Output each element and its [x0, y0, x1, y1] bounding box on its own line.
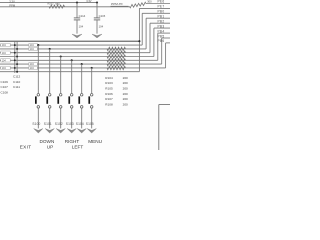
wire button 3 up — [60, 57, 62, 94]
wire stub PB1 — [146, 17, 170, 19]
label C114 — [79, 14, 86, 18]
label UP — [47, 144, 54, 149]
svg-text:3.3V: 3.3V — [86, 0, 92, 3]
wire left vertical A — [14, 41, 16, 73]
wire bus row 0 — [0, 40, 139, 42]
svg-text:PB1: PB1 — [158, 15, 165, 19]
svg-text:R103: R103 — [105, 81, 113, 85]
svg-text:200: 200 — [123, 76, 128, 80]
svg-text:PB4: PB4 — [158, 29, 165, 33]
svg-text:PB6: PB6 — [158, 39, 165, 43]
wire row 3 — [0, 52, 150, 54]
svg-text:PE7: PE7 — [158, 5, 165, 9]
junction dot button 3 — [60, 55, 62, 57]
svg-text:PPM: PPM — [9, 3, 16, 7]
svg-text:S103: S103 — [66, 122, 74, 126]
wire stub PB3 — [154, 27, 170, 29]
svg-text:PE6: PE6 — [158, 0, 165, 4]
label R102 — [48, 3, 55, 6]
wire riser PB0 — [141, 13, 143, 45]
capacitor C114 — [74, 3, 80, 34]
net flag left — [1, 66, 10, 70]
value 104 C115 — [99, 24, 104, 28]
svg-text:S100: S100 — [32, 122, 40, 126]
label S101 — [44, 122, 52, 126]
wire row 2 — [0, 48, 146, 50]
label DOWN — [40, 139, 55, 144]
capacitor C115 — [94, 3, 100, 34]
svg-text:C112: C112 — [13, 75, 20, 79]
label C112 — [13, 75, 20, 79]
net label PB1 — [158, 15, 165, 19]
wire button 4 down — [71, 108, 73, 128]
svg-text:104: 104 — [2, 67, 7, 70]
value 200 R106 — [123, 92, 128, 96]
svg-text:PB3: PB3 — [158, 24, 165, 28]
resistor row2 — [107, 47, 126, 50]
net label PB0 — [158, 10, 165, 14]
svg-text:200: 200 — [123, 81, 128, 85]
svg-text:C110: C110 — [13, 80, 20, 84]
label S102 — [55, 122, 63, 126]
value 200 R105 — [123, 87, 128, 91]
svg-text:MENU: MENU — [88, 139, 102, 144]
svg-text:C107: C107 — [1, 85, 9, 89]
value 200 R104 — [123, 76, 128, 80]
switch S101 contacts — [48, 94, 51, 109]
ground button 1 — [34, 129, 43, 133]
wire 3.3V top rail — [0, 2, 97, 4]
wire row 7 — [0, 67, 166, 69]
junction dot vB — [16, 63, 18, 65]
svg-text:R106: R106 — [105, 92, 113, 96]
wire stub PB2 — [150, 22, 170, 24]
svg-text:S102: S102 — [55, 122, 63, 126]
junction dot vA — [14, 44, 16, 46]
net flag left — [1, 51, 10, 55]
label EXIT — [20, 144, 32, 149]
label S105 — [86, 122, 94, 126]
label R104 — [105, 76, 113, 80]
wire button 3 down — [60, 108, 62, 128]
value 200 R108 — [123, 103, 128, 107]
wire row 5 — [0, 59, 158, 61]
svg-text:S105: S105 — [86, 122, 94, 126]
block outline corner — [159, 105, 170, 151]
wire stub PB5 — [162, 37, 170, 39]
label R103 — [105, 81, 113, 85]
wire riser PB5 — [161, 38, 163, 64]
switch S104 actuator bar — [78, 96, 80, 103]
value 200 R107 — [123, 97, 128, 101]
wire row 6 — [0, 63, 162, 65]
wire stub PB0 — [142, 12, 170, 14]
net label PB5 — [158, 34, 165, 38]
junction dot vB — [16, 48, 18, 50]
svg-text:560: 560 — [56, 3, 61, 6]
svg-text:PB2: PB2 — [158, 20, 165, 24]
label C109 — [1, 80, 9, 84]
value 560 — [56, 3, 61, 6]
value 200 R103 — [123, 81, 128, 85]
wire stub PB6 — [166, 42, 170, 44]
svg-text:R105: R105 — [105, 87, 113, 91]
junction dot vA — [14, 67, 16, 69]
junction dot button 6 — [91, 67, 93, 69]
junction dot vB — [16, 56, 18, 58]
svg-text:PB5: PB5 — [158, 34, 165, 38]
svg-text:200: 200 — [123, 87, 128, 91]
svg-text:104: 104 — [2, 59, 7, 62]
wire button 2 up — [49, 49, 51, 93]
svg-text:C109: C109 — [1, 80, 9, 84]
ground C115 — [92, 34, 102, 38]
node 3.3V cap junction dot 1 — [76, 2, 78, 4]
net label PB6 — [158, 39, 165, 43]
resistor row5 — [107, 59, 126, 62]
junction dot vA — [14, 52, 16, 54]
svg-text:300: 300 — [147, 0, 152, 4]
resistor R101 — [130, 2, 147, 8]
net label PPM left — [9, 3, 16, 7]
wire riser PB1 — [145, 18, 147, 49]
label C108 — [1, 91, 9, 95]
svg-text:3.3V: 3.3V — [9, 0, 15, 3]
switch S102 contacts — [59, 94, 62, 109]
svg-text:S104: S104 — [76, 122, 84, 126]
label R105 — [105, 87, 113, 91]
wire riser PE7 — [138, 8, 140, 71]
wire row 8 — [0, 71, 139, 73]
wire button 1 up — [37, 45, 39, 93]
node 3.3V cap junction dot 2 — [96, 2, 98, 4]
label C107 — [1, 85, 9, 89]
svg-text:C114: C114 — [79, 14, 86, 18]
svg-text:R107: R107 — [105, 97, 113, 101]
value 104 C114 — [79, 24, 84, 28]
net flag mid — [29, 62, 37, 66]
wire button 1 down — [37, 108, 39, 128]
ground button 3 — [56, 129, 65, 133]
net flag mid — [29, 43, 37, 47]
switch S105 actuator bar — [88, 96, 90, 103]
switch S102 actuator bar — [57, 96, 59, 103]
ground button 5 — [77, 129, 86, 133]
svg-text:104: 104 — [2, 44, 7, 47]
svg-text:104: 104 — [30, 48, 35, 51]
svg-text:EXIT: EXIT — [20, 144, 32, 149]
switch S104 contacts — [80, 94, 83, 109]
value 300 — [147, 0, 152, 4]
svg-text:104: 104 — [2, 52, 7, 55]
junction dot button 5 — [81, 63, 83, 65]
wire button 6 down — [91, 108, 93, 128]
svg-text:UP: UP — [47, 144, 54, 149]
svg-text:PPM PC: PPM PC — [111, 2, 124, 6]
net label 3.3V left — [9, 0, 15, 3]
ground button 4 — [67, 129, 76, 133]
junction dot button 1 — [37, 44, 39, 46]
label C110 — [13, 80, 20, 84]
label S104 — [76, 122, 84, 126]
resistor row7 — [107, 66, 126, 69]
svg-text:104: 104 — [79, 24, 84, 28]
net label PB3 — [158, 24, 165, 28]
svg-text:200: 200 — [123, 97, 128, 101]
svg-text:C115: C115 — [99, 14, 106, 18]
svg-text:104: 104 — [99, 24, 104, 28]
resistor row4 — [107, 55, 126, 58]
wire button 2 down — [49, 108, 51, 128]
svg-text:R104: R104 — [105, 76, 113, 80]
resistor row3 — [107, 51, 126, 54]
net label PE7 — [158, 5, 165, 9]
net label PB2 — [158, 20, 165, 24]
svg-text:C111: C111 — [13, 85, 20, 89]
junction dot row0 riser — [138, 40, 140, 42]
wire stub PE6 — [146, 3, 170, 5]
svg-text:104: 104 — [30, 44, 35, 47]
svg-text:104: 104 — [30, 67, 35, 70]
wire riser PB2 — [149, 23, 151, 53]
switch S100 contacts — [37, 94, 40, 109]
wire riser PB6 — [165, 43, 167, 68]
resistor row6 — [107, 62, 126, 65]
net label 3.3V mid — [86, 0, 92, 3]
ground button 2 — [45, 129, 54, 133]
svg-text:200: 200 — [123, 103, 128, 107]
switch S103 contacts — [70, 94, 73, 109]
svg-text:104: 104 — [30, 63, 35, 66]
switch S103 actuator bar — [68, 96, 70, 103]
label R107 — [105, 97, 113, 101]
wire stub PB4 — [158, 32, 170, 34]
svg-text:R102: R102 — [48, 3, 55, 6]
net flag left — [1, 59, 10, 63]
svg-text:C108: C108 — [1, 91, 9, 95]
svg-text:200: 200 — [123, 92, 128, 96]
resistor R102 — [49, 5, 65, 8]
wire riser PB4 — [157, 33, 159, 60]
svg-text:PB0: PB0 — [158, 10, 165, 14]
net label PE6 — [158, 0, 165, 4]
wire riser PB3 — [153, 28, 155, 56]
junction dot button 2 — [49, 48, 51, 50]
svg-text:LEFT: LEFT — [72, 144, 84, 149]
svg-text:S101: S101 — [44, 122, 52, 126]
wire row 4 — [0, 56, 154, 58]
label LEFT — [72, 144, 84, 149]
wire left vertical B — [16, 41, 18, 73]
switch S101 actuator bar — [46, 96, 48, 103]
label C115 — [99, 14, 106, 18]
svg-text:R108: R108 — [105, 103, 113, 107]
net flag mid — [29, 66, 37, 70]
ground C114 — [72, 34, 82, 38]
label S103 — [66, 122, 74, 126]
label C111 — [13, 85, 20, 89]
label S100 — [32, 122, 40, 126]
wire button 4 up — [71, 60, 73, 93]
net flag left — [1, 43, 10, 47]
ground button 6 — [87, 129, 96, 133]
wire button 5 up — [81, 64, 83, 93]
net label PB4 — [158, 29, 165, 33]
net flag mid — [29, 47, 37, 51]
wire row 1 — [0, 44, 142, 46]
net label PPM PC — [111, 2, 124, 6]
wire button 6 up — [91, 68, 93, 93]
junction dot vB — [16, 71, 18, 73]
wire stub PE7 — [139, 7, 170, 9]
junction dot button 4 — [71, 59, 73, 61]
wire PPM rail — [0, 6, 130, 8]
label R106 — [105, 92, 113, 96]
junction dot vA — [14, 59, 16, 61]
label MENU — [88, 139, 102, 144]
label RIGHT — [65, 139, 80, 144]
label R108 — [105, 103, 113, 107]
wire button 5 down — [81, 108, 83, 128]
switch S105 contacts — [90, 94, 93, 109]
switch S100 actuator bar — [35, 96, 37, 103]
net label PPM PC underline — [111, 5, 129, 7]
